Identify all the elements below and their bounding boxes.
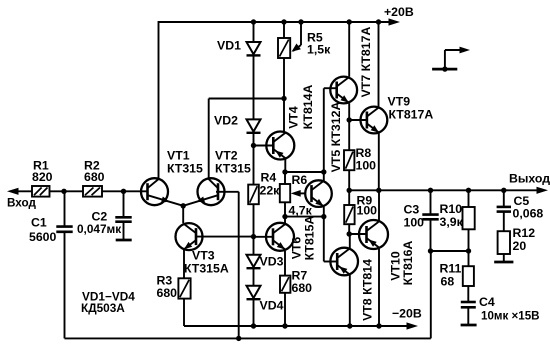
svg-text:C1: C1 xyxy=(31,216,47,230)
svg-text:VD1: VD1 xyxy=(217,39,241,53)
wire VT3 emitter down to R3 xyxy=(183,250,185,279)
resistor R7 xyxy=(280,276,290,293)
resistor R2 xyxy=(83,186,102,197)
svg-text:VD3: VD3 xyxy=(260,255,284,269)
svg-text:20: 20 xyxy=(513,239,527,253)
svg-text:КТ315А: КТ315А xyxy=(184,262,229,276)
capacitor C4 xyxy=(467,286,469,302)
node R5/VT4/VT2 junction xyxy=(281,96,286,101)
node VT8 collector / VT10 base junction xyxy=(347,231,352,236)
diode VD1 xyxy=(247,42,261,54)
wire R8 bottom to output bus xyxy=(348,170,350,190)
svg-text:R12: R12 xyxy=(513,226,536,240)
wire R5 bottom to VT4 node xyxy=(283,58,285,99)
wire chassis symbol vertical xyxy=(444,50,446,69)
wire VT1 collector to top rail xyxy=(158,21,160,179)
wire R5 wiper from rail xyxy=(300,22,302,45)
resistor R11 xyxy=(468,251,470,266)
svg-text:C3: C3 xyxy=(404,203,420,217)
svg-text:КТ817А: КТ817А xyxy=(389,108,434,122)
wire VT6 base to bias node xyxy=(254,236,274,238)
wire VT7 base column xyxy=(323,88,325,172)
wire VT9 base xyxy=(349,119,367,121)
node VT4 base junction xyxy=(251,143,256,148)
node chassis junction xyxy=(442,66,447,71)
ground for R12 xyxy=(494,261,513,264)
svg-text:VT9: VT9 xyxy=(388,95,411,109)
wire VT10 bottom lead to -20V rail xyxy=(378,249,380,326)
wire VT5 emitter down xyxy=(323,207,325,217)
svg-text:VT7 КТ817А: VT7 КТ817А xyxy=(359,27,373,98)
svg-text:VT3: VT3 xyxy=(192,249,215,263)
svg-text:Выход: Выход xyxy=(509,172,550,186)
ground for C2 xyxy=(116,239,132,242)
node input signal line xyxy=(13,190,148,192)
svg-text:−20В: −20В xyxy=(392,307,422,321)
transistor VT4 KT814A (pnp) xyxy=(266,132,294,160)
wire VD2 to R4 xyxy=(253,133,255,185)
input arrow xyxy=(7,188,19,195)
resistor R9 xyxy=(348,190,350,205)
wire VD3 to VD4 xyxy=(253,268,255,286)
resistor R3 xyxy=(178,278,190,298)
wire node to VT5 collector column xyxy=(285,171,324,173)
node R5 wiper rail junction xyxy=(298,19,303,24)
wire VD1 to VD2 xyxy=(253,56,255,120)
node VT1/VT2 emitters junction xyxy=(181,203,186,208)
ground chassis bar xyxy=(432,68,457,71)
wire C3 node to R10/R11 column xyxy=(431,250,469,252)
svg-text:1,5к: 1,5к xyxy=(307,43,331,57)
node R6 bottom / VT6 collector junction xyxy=(282,214,287,219)
svg-text:3,9к: 3,9к xyxy=(440,215,464,229)
wire -20V bottom rail xyxy=(184,325,410,327)
svg-text:КД503А: КД503А xyxy=(81,301,125,315)
diode VD2 xyxy=(247,119,261,131)
transistor VT2 KT315 (mirrored) xyxy=(198,178,225,205)
svg-text:4,7к: 4,7к xyxy=(289,204,313,218)
wire VT2 emitter to common node xyxy=(183,195,218,206)
svg-text:680: 680 xyxy=(292,281,313,295)
node VT3/VT6 base bias junction xyxy=(251,234,256,239)
node VT8 joins -20V rail xyxy=(347,323,352,328)
wire VT9 collector to rail xyxy=(378,22,380,107)
wire rail to R5 xyxy=(283,22,285,38)
svg-text:0,068: 0,068 xyxy=(513,207,544,221)
svg-text:VT1: VT1 xyxy=(167,149,190,163)
wire R10 bottom to node xyxy=(468,229,470,251)
node VD4 joins -20V rail xyxy=(251,323,256,328)
wire VT6 emitter down to R7 xyxy=(284,251,286,276)
wire VT4 emitter down to node xyxy=(284,159,286,172)
wire ground/feedback bottom rail xyxy=(65,337,431,339)
node junction R2-C2-VT1 base xyxy=(121,189,126,194)
wire VT8 top lead xyxy=(349,234,351,248)
node VT4 emitter / R6 top junction xyxy=(282,169,287,174)
svg-text:100: 100 xyxy=(404,216,425,230)
capacitor C1 xyxy=(64,191,66,226)
svg-text:C4: C4 xyxy=(479,295,495,309)
transistor VT6 KT815A xyxy=(266,223,294,251)
node VT5 collector junction xyxy=(321,169,326,174)
resistor R12 xyxy=(498,231,510,254)
wire VT6 collector up xyxy=(284,217,286,224)
svg-text:КТ815А: КТ815А xyxy=(303,216,317,261)
arrow R5 wiper xyxy=(292,44,301,52)
svg-text:Вход: Вход xyxy=(7,197,36,210)
svg-text:R11: R11 xyxy=(440,262,462,276)
node R5 top rail junction xyxy=(281,19,286,24)
transistor VT7 KT817A xyxy=(330,77,357,104)
wire VD4 to -20V rail xyxy=(253,299,255,326)
wire +20V top rail xyxy=(159,21,393,23)
capacitor C5 xyxy=(503,190,505,206)
wire VT2 collector horizontal to R5/VT4 node xyxy=(209,98,284,100)
wire R12 bottom xyxy=(503,254,505,261)
wire VT3 base to diode bias node xyxy=(196,236,254,238)
capacitor C2 xyxy=(123,191,125,217)
node R7 joins -20V rail xyxy=(282,323,287,328)
resistor R4 xyxy=(248,185,259,205)
transistor VT1 KT315 xyxy=(141,178,168,205)
svg-text:VT5 КТ312А: VT5 КТ312А xyxy=(329,102,343,173)
wire VT2 collector up xyxy=(208,99,210,179)
wire R6/VT6 node to VT5 emitter node xyxy=(285,216,324,218)
node output bus xyxy=(349,189,540,191)
resistor R8 xyxy=(344,150,354,170)
transistor VT5 KT312A xyxy=(305,180,332,207)
svg-text:820: 820 xyxy=(32,170,53,184)
wire R7 bottom to -20V rail xyxy=(284,293,286,326)
svg-text:100: 100 xyxy=(356,159,377,173)
svg-text:680: 680 xyxy=(84,170,105,184)
svg-text:10мк ×15В: 10мк ×15В xyxy=(481,310,540,323)
resistor R5 (variable) xyxy=(278,38,290,58)
svg-text:R4: R4 xyxy=(261,171,277,185)
svg-text:VT2: VT2 xyxy=(215,149,238,163)
node junction R1-R2-C1 xyxy=(61,189,66,194)
svg-text:VT8 КТ814: VT8 КТ814 xyxy=(361,259,375,321)
wire VT5 collector up xyxy=(323,172,325,181)
wire chassis symbol horizontal xyxy=(445,49,461,51)
wire C3 node down to bottom rail xyxy=(430,251,432,338)
wire node to VT10 base xyxy=(349,233,367,235)
diode VD3 xyxy=(247,255,261,267)
svg-text:0,047мк: 0,047мк xyxy=(77,222,121,236)
node VT9 collector rail junction xyxy=(376,19,381,24)
chassis arrow xyxy=(460,47,471,54)
resistor R1 xyxy=(32,186,50,197)
svg-text:VT4: VT4 xyxy=(287,106,301,129)
transistor VT3 KT315A (mirrored) xyxy=(176,223,203,250)
node C5 bus junction xyxy=(501,188,506,193)
svg-text:22к: 22к xyxy=(260,184,281,198)
wire R9 bottom to VT8/VT10 node xyxy=(348,224,350,234)
node VT10 joins -20V rail xyxy=(376,323,381,328)
resistor R10 xyxy=(468,190,470,207)
wire feedback column down to bottom rail xyxy=(238,192,240,339)
wire R4 to VD3 xyxy=(253,204,255,255)
transistor VT10 KT816A (pnp) xyxy=(359,220,388,249)
wire VT2 base to feedback column xyxy=(216,191,239,193)
wire VT9 emitter to output bus xyxy=(378,133,380,190)
node feedback column joins bottom rail xyxy=(236,336,241,341)
diode VD4 xyxy=(247,286,261,298)
wire VT4 collector xyxy=(283,99,285,133)
svg-text:КТ315: КТ315 xyxy=(215,162,251,176)
node VT5 emitter junction xyxy=(321,214,326,219)
svg-text:КТ814А: КТ814А xyxy=(301,85,315,130)
svg-text:R10: R10 xyxy=(440,202,463,216)
ground for C4 xyxy=(461,324,477,327)
svg-text:VD2: VD2 xyxy=(214,114,238,128)
resistor R6 (trimmer) xyxy=(284,172,286,184)
svg-text:+20В: +20В xyxy=(384,5,414,19)
wire VT5 emitter down to VT8 base xyxy=(323,217,325,262)
power -20V arrow xyxy=(407,322,419,329)
svg-text:5600: 5600 xyxy=(29,230,57,244)
node C3 bus junction xyxy=(428,188,433,193)
node C3/R10/R11 junction xyxy=(428,248,433,253)
wire VT10 top lead to output bus xyxy=(378,190,380,220)
node VT7 collector rail junction xyxy=(347,19,352,24)
wire VT8 bottom lead to -20V rail xyxy=(349,275,351,326)
node R8/R9 bus junction xyxy=(347,188,352,193)
wire VT1 emitter to common node xyxy=(148,195,184,206)
svg-text:КТ816А: КТ816А xyxy=(401,241,415,286)
node VT9 base junction xyxy=(347,117,352,122)
wire VT7 emitter down to R8 xyxy=(348,103,350,150)
wire R6 bottom xyxy=(284,202,286,216)
transistor VT8 KT814 (pnp) xyxy=(330,248,358,276)
svg-text:100: 100 xyxy=(357,204,378,218)
wire R3 bottom to -20V rail xyxy=(183,299,185,326)
node top rail VD column junction xyxy=(251,19,256,24)
svg-text:VD4: VD4 xyxy=(260,299,284,313)
svg-text:R6: R6 xyxy=(292,173,308,187)
svg-text:VT6: VT6 xyxy=(290,237,304,260)
node R10 bus junction xyxy=(466,188,471,193)
output arrow xyxy=(537,187,549,194)
wire common emitters down to VT3 collector xyxy=(182,206,184,224)
wire top rail to VD1 xyxy=(253,22,255,42)
capacitor C3 xyxy=(430,190,432,214)
transistor VT9 KT817A xyxy=(361,107,388,134)
svg-text:68: 68 xyxy=(441,275,455,289)
svg-text:КТ315: КТ315 xyxy=(167,162,203,176)
svg-text:680: 680 xyxy=(157,286,178,300)
node R11 top junction xyxy=(466,248,471,253)
wire VT7 collector to rail xyxy=(348,22,350,77)
node VT9/VT10 emitters bus junction xyxy=(376,188,381,193)
arrow R6 wiper to VT5 base xyxy=(296,192,305,194)
wire VT4 base xyxy=(254,145,274,147)
power +20V arrow xyxy=(389,18,401,25)
